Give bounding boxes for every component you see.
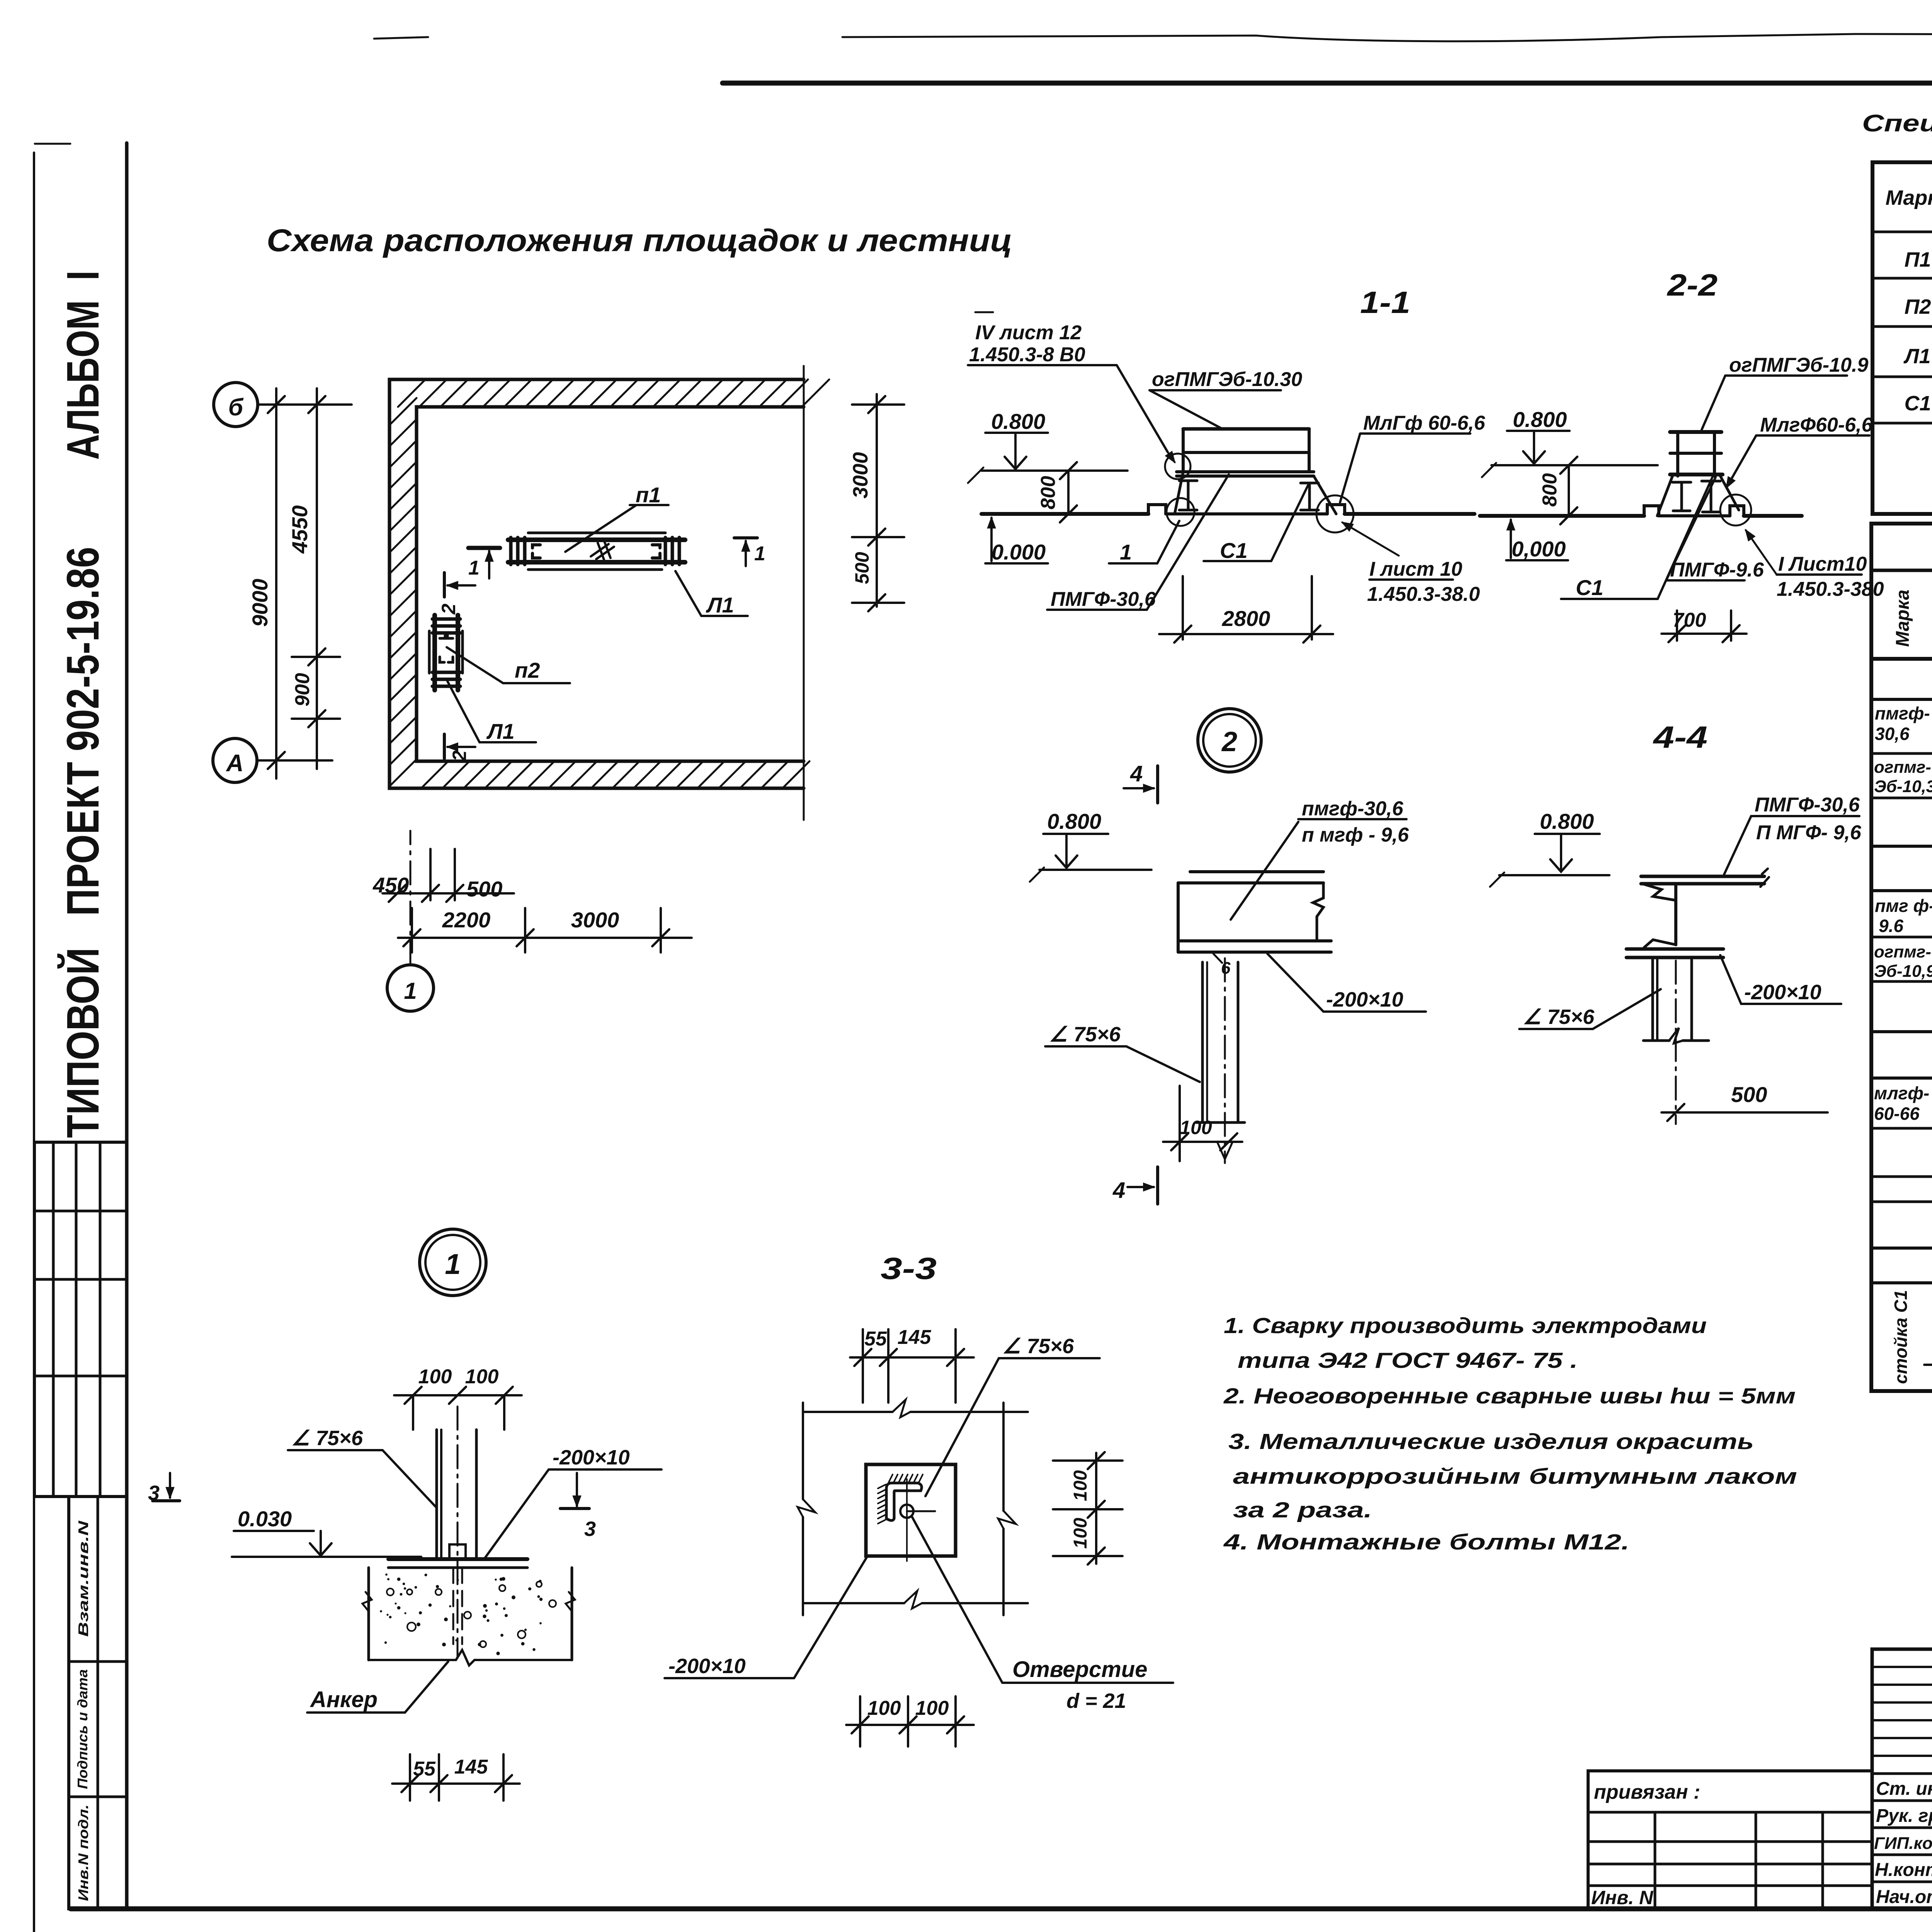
svg-text:стойка С1: стойка С1	[1891, 1290, 1911, 1384]
svg-text:100: 100	[418, 1366, 452, 1388]
svg-text:I Лист10: I Лист10	[1778, 553, 1867, 575]
svg-text:-200×10: -200×10	[668, 1655, 746, 1678]
detail bubble 1	[420, 1229, 486, 1296]
svg-text:млгф-: млгф-	[1874, 1083, 1929, 1103]
svg-text:2800: 2800	[1222, 606, 1270, 631]
section 1-1 level line 0.800	[981, 469, 1128, 472]
svg-text:С1: С1	[1576, 575, 1604, 600]
sheet frame: top thin border line	[842, 34, 1932, 41]
svg-text:100: 100	[465, 1366, 499, 1388]
section 3-3 bolt hole	[900, 1505, 913, 1518]
svg-text:∠ 75×6: ∠ 75×6	[291, 1427, 363, 1450]
svg-text:9.6: 9.6	[1879, 916, 1903, 936]
svg-text:∠ 75×6: ∠ 75×6	[1049, 1023, 1121, 1046]
svg-text:П2: П2	[1905, 295, 1931, 318]
svg-text:100: 100	[867, 1697, 901, 1719]
section 1-1 support trapezoid	[1175, 472, 1183, 514]
section 1-1 platform floor	[1177, 470, 1314, 473]
detail 1 concrete foundation	[367, 1568, 370, 1660]
svg-text:-200×10: -200×10	[1326, 988, 1403, 1011]
svg-text:4-4: 4-4	[1653, 720, 1708, 754]
section 2-2 support trapezoid	[1657, 474, 1673, 516]
svg-text:пмг ф-: пмг ф-	[1875, 896, 1932, 916]
svg-text:IV лист 12: IV лист 12	[975, 321, 1082, 344]
sheet frame: small tick top-left	[35, 143, 70, 145]
svg-text:3. Металлические изделия окр: 3. Металлические изделия окрасить	[1228, 1429, 1754, 1454]
svg-text:Отверстие: Отверстие	[1012, 1657, 1147, 1682]
svg-text:500: 500	[466, 877, 502, 901]
svg-text:1-1: 1-1	[1360, 285, 1410, 320]
svg-text:Нач.отд.: Нач.отд.	[1876, 1887, 1932, 1907]
grid axis bubble 1	[387, 965, 434, 1011]
svg-text:С1: С1	[1220, 538, 1248, 563]
detail 1 anchor bolt shaft dashed	[452, 1568, 454, 1644]
svg-text:9000: 9000	[248, 579, 272, 627]
section mark 2 upper	[443, 573, 446, 597]
section 3-3 angle profile	[886, 1483, 922, 1520]
dimension 9000 vertical chain	[275, 388, 277, 779]
svg-text:Ст. инж.: Ст. инж.	[1876, 1779, 1932, 1799]
left stamp: lower stamp cells	[69, 1497, 127, 1909]
svg-text:огПМГЭб-10.9: огПМГЭб-10.9	[1729, 354, 1868, 376]
svg-text:Инв.N подл.: Инв.N подл.	[75, 1804, 91, 1901]
svg-text:2. Неоговоренные сварные швы: 2. Неоговоренные сварные швы hш = 5мм	[1223, 1384, 1796, 1408]
detail 1 level line	[232, 1556, 421, 1558]
section 1-1 stand right	[1308, 483, 1311, 510]
svg-text:Рук. гр.: Рук. гр.	[1876, 1806, 1932, 1826]
svg-text:3-3: 3-3	[881, 1251, 937, 1286]
section 3-3 left boundary line with break	[802, 1403, 804, 1615]
grid axis bubble A	[213, 738, 257, 782]
svg-text:2: 2	[438, 604, 459, 615]
svg-text:I лист 10: I лист 10	[1369, 558, 1463, 580]
vedomost table header lines	[1871, 569, 1932, 572]
plan wall outline inner	[417, 407, 804, 761]
platform P1 plan symbol	[528, 532, 665, 534]
svg-text:0,000: 0,000	[1512, 537, 1566, 561]
svg-text:Взам.инв.N: Взам.инв.N	[75, 1520, 91, 1637]
svg-text:1: 1	[1120, 540, 1132, 564]
svg-text:антикоррозийным битумным лак: антикоррозийным битумным лаком	[1233, 1464, 1797, 1489]
svg-text:1: 1	[468, 557, 480, 579]
svg-text:1.450.3-8 В0: 1.450.3-8 В0	[969, 344, 1085, 366]
svg-text:ПМГФ-30,6: ПМГФ-30,6	[1051, 588, 1156, 611]
svg-text:4: 4	[1130, 761, 1143, 786]
detail 1 column	[435, 1430, 438, 1559]
section 3-3 base plate square	[866, 1464, 956, 1556]
svg-text:2: 2	[1221, 726, 1237, 757]
left stamp: upper revision table	[34, 1142, 127, 1497]
svg-text:4550: 4550	[287, 505, 312, 554]
svg-text:Спецификация к схеме распол: Спецификация к схеме расположения площад…	[1862, 110, 1932, 137]
sheet frame: left outer border	[33, 153, 35, 1932]
svg-text:типа Э42 ГОСТ 9467- 75 .: типа Э42 ГОСТ 9467- 75 .	[1238, 1348, 1578, 1373]
svg-text:Эб-10,30: Эб-10,30	[1874, 777, 1932, 796]
svg-text:3000: 3000	[571, 908, 619, 932]
svg-text:Подпись и дата: Подпись и дата	[75, 1669, 90, 1789]
detail 2 column	[1201, 962, 1204, 1122]
svg-text:п мгф - 9,6: п мгф - 9,6	[1302, 824, 1409, 846]
detail 1 anchor bolt head	[449, 1544, 466, 1559]
section 4-4 bottom plate	[1626, 947, 1723, 951]
svg-text:А: А	[226, 750, 244, 777]
svg-text:Марка: Марка	[1893, 590, 1913, 647]
section 1-1 stand left	[1187, 481, 1190, 510]
svg-text:ПМГФ-9.6: ПМГФ-9.6	[1670, 559, 1764, 581]
vedomost group Ploshchadka P1	[1871, 657, 1932, 660]
section 3-3 dimension 100 100 right	[1053, 1459, 1122, 1462]
section mark 1 left	[468, 546, 500, 550]
plan wall right break line	[803, 366, 805, 820]
svg-text:привязан :: привязан :	[1594, 1781, 1700, 1803]
section 2-2 ladder	[1676, 432, 1679, 476]
svg-text:П МГФ- 9,6: П МГФ- 9,6	[1756, 821, 1862, 844]
section 2-2 level line	[1492, 464, 1658, 466]
title block: signature rows	[1872, 1799, 1932, 1802]
svg-text:П1: П1	[1905, 248, 1931, 271]
svg-text:0.000: 0.000	[992, 540, 1046, 564]
dimension 4550 / 900 chain	[316, 388, 318, 769]
svg-text:1.450.3-380: 1.450.3-380	[1777, 578, 1884, 600]
svg-text:ТИПОВОЙ ПРОЕКТ 902-5-19.86: ТИПОВОЙ ПРОЕКТ 902-5-19.86	[57, 547, 109, 1138]
svg-text:-200×10: -200×10	[1744, 981, 1821, 1004]
svg-text:п2: п2	[515, 658, 540, 682]
title block: privyazan table	[1588, 1771, 1872, 1909]
svg-text:100: 100	[915, 1697, 949, 1719]
plan wall outline outer	[389, 379, 804, 788]
svg-text:500: 500	[851, 552, 873, 584]
vedomost group Ploshchadka P2	[1871, 845, 1932, 848]
svg-text:800: 800	[1539, 473, 1561, 507]
svg-text:1: 1	[445, 1248, 461, 1280]
section 3-3 bottom boundary line with break	[803, 1602, 1028, 1604]
svg-text:450: 450	[372, 873, 409, 897]
svg-text:ГИП.конст: ГИП.конст	[1874, 1834, 1932, 1853]
detail 2 platform box	[1190, 870, 1323, 873]
svg-text:55: 55	[864, 1328, 887, 1350]
vedomost group Stoyka C1	[1871, 1247, 1932, 1250]
svg-text:б: б	[228, 394, 244, 421]
platform P1 hash mark	[591, 541, 614, 560]
svg-text:Марка: Марка	[1886, 186, 1932, 209]
svg-text:1: 1	[754, 543, 765, 565]
svg-text:900: 900	[291, 673, 314, 707]
svg-text:2-2: 2-2	[1667, 268, 1718, 302]
sheet frame: left inner border	[125, 143, 129, 1909]
svg-text:4. Монтажные болты М12.: 4. Монтажные болты М12.	[1223, 1530, 1629, 1554]
sheet frame: top heavy border line	[723, 81, 1932, 86]
svg-text:3: 3	[584, 1517, 596, 1541]
platform P2 plan symbol	[428, 631, 431, 673]
section 1-1 weld detail circles	[1165, 454, 1190, 479]
section 1-1 platform railing box	[1183, 427, 1309, 431]
vedomost table outer box	[1871, 524, 1932, 1391]
section 4-4 column	[1651, 957, 1654, 1041]
svg-text:Анкер: Анкер	[310, 1687, 378, 1712]
svg-text:60-66: 60-66	[1874, 1104, 1920, 1124]
svg-text:пмгф-30,6: пмгф-30,6	[1302, 798, 1404, 820]
svg-text:огпмг-: огпмг-	[1874, 758, 1931, 777]
section 4-4 top plate	[1641, 875, 1764, 878]
svg-text:100: 100	[1070, 1470, 1091, 1501]
svg-text:1. Сварку производить электр: 1. Сварку производить электродами	[1224, 1313, 1707, 1338]
detail 2 level line	[1039, 869, 1151, 871]
section 2-2 weld circle	[1720, 495, 1751, 526]
svg-text:d = 21: d = 21	[1066, 1689, 1126, 1713]
svg-text:0.030: 0.030	[238, 1507, 292, 1531]
svg-text:МлгФ60-6,6: МлгФ60-6,6	[1760, 414, 1873, 436]
svg-text:п1: п1	[636, 483, 661, 507]
detail 1 base plate	[388, 1557, 527, 1561]
section mark 1 right	[734, 536, 757, 539]
grid axis bubble B	[214, 383, 258, 427]
plan wall hatching	[389, 379, 829, 788]
title block: thin upper rows	[1872, 1666, 1932, 1668]
svg-text:МлГф 60-6,6: МлГф 60-6,6	[1363, 412, 1486, 434]
svg-text:Схема расположения площадок: Схема расположения площадок и лестниц	[267, 223, 1012, 258]
svg-text:2: 2	[449, 750, 470, 762]
vedomost group Lestnitsa L1	[1871, 1030, 1932, 1033]
svg-text:145: 145	[898, 1326, 932, 1349]
svg-text:0.800: 0.800	[1540, 809, 1594, 833]
svg-text:Эб-10,9: Эб-10,9	[1874, 962, 1932, 981]
sheet frame: bottom heavy border line	[71, 1906, 1932, 1912]
svg-text:1.450.3-38.0: 1.450.3-38.0	[1367, 583, 1480, 605]
svg-text:Инв. N: Инв. N	[1591, 1887, 1653, 1908]
svg-text:100: 100	[1070, 1518, 1091, 1549]
section 4-4 channel web	[1642, 884, 1676, 900]
title block: signature table outline	[1872, 1649, 1932, 1909]
plan dimension 2200 3000	[398, 937, 692, 939]
spec table grid	[1872, 162, 1932, 514]
svg-text:145: 145	[454, 1756, 488, 1778]
svg-text:4: 4	[1112, 1178, 1125, 1203]
svg-text:500: 500	[1731, 1082, 1767, 1107]
section 4-4 level line	[1499, 874, 1609, 876]
svg-text:0.800: 0.800	[1047, 809, 1101, 833]
svg-text:∠ 75×6: ∠ 75×6	[1002, 1335, 1074, 1358]
section mark 3 right	[576, 1473, 578, 1506]
svg-text:0.800: 0.800	[1513, 407, 1567, 432]
plan dimension 450 500	[383, 892, 514, 895]
svg-text:Л1: Л1	[706, 593, 734, 617]
section 3-3 top boundary line with break	[803, 1411, 1028, 1413]
section 2-2 stands	[1680, 482, 1683, 511]
svg-text:ПМГФ-30,6: ПМГФ-30,6	[1755, 794, 1860, 816]
svg-text:огпмг-: огпмг-	[1874, 942, 1931, 961]
svg-text:Н.контр.: Н.контр.	[1875, 1860, 1932, 1880]
svg-text:∠ 75×6: ∠ 75×6	[1523, 1005, 1595, 1029]
svg-text:1: 1	[404, 978, 417, 1004]
svg-text:Л1: Л1	[486, 719, 515, 743]
svg-text:пмгф-: пмгф-	[1875, 703, 1930, 723]
svg-text:-200×10: -200×10	[553, 1446, 630, 1469]
svg-text:АЛЬБОМ I: АЛЬБОМ I	[58, 270, 109, 460]
section 3-3 right boundary line with break	[1002, 1403, 1005, 1615]
svg-text:800: 800	[1037, 476, 1060, 510]
dimension 3000 / 500 vertical chain	[876, 394, 878, 607]
svg-text:30,6: 30,6	[1875, 724, 1910, 744]
detail bubble 2	[1198, 709, 1261, 772]
svg-text:2200: 2200	[442, 908, 491, 932]
svg-text:Л1: Л1	[1903, 345, 1930, 368]
svg-text:за 2 раза.: за 2 раза.	[1233, 1498, 1372, 1522]
svg-text:огПМГЭб-10.30: огПМГЭб-10.30	[1152, 368, 1302, 391]
section 1-1 ground line	[981, 512, 1148, 516]
section 2-2 ground line	[1480, 514, 1644, 518]
svg-text:0.800: 0.800	[991, 409, 1045, 434]
svg-text:100: 100	[1180, 1117, 1212, 1138]
section mark 2 lower	[443, 734, 446, 759]
svg-text:3000: 3000	[849, 452, 872, 498]
svg-text:С1: С1	[1904, 392, 1931, 415]
detail 1 concrete texture	[380, 1573, 543, 1655]
